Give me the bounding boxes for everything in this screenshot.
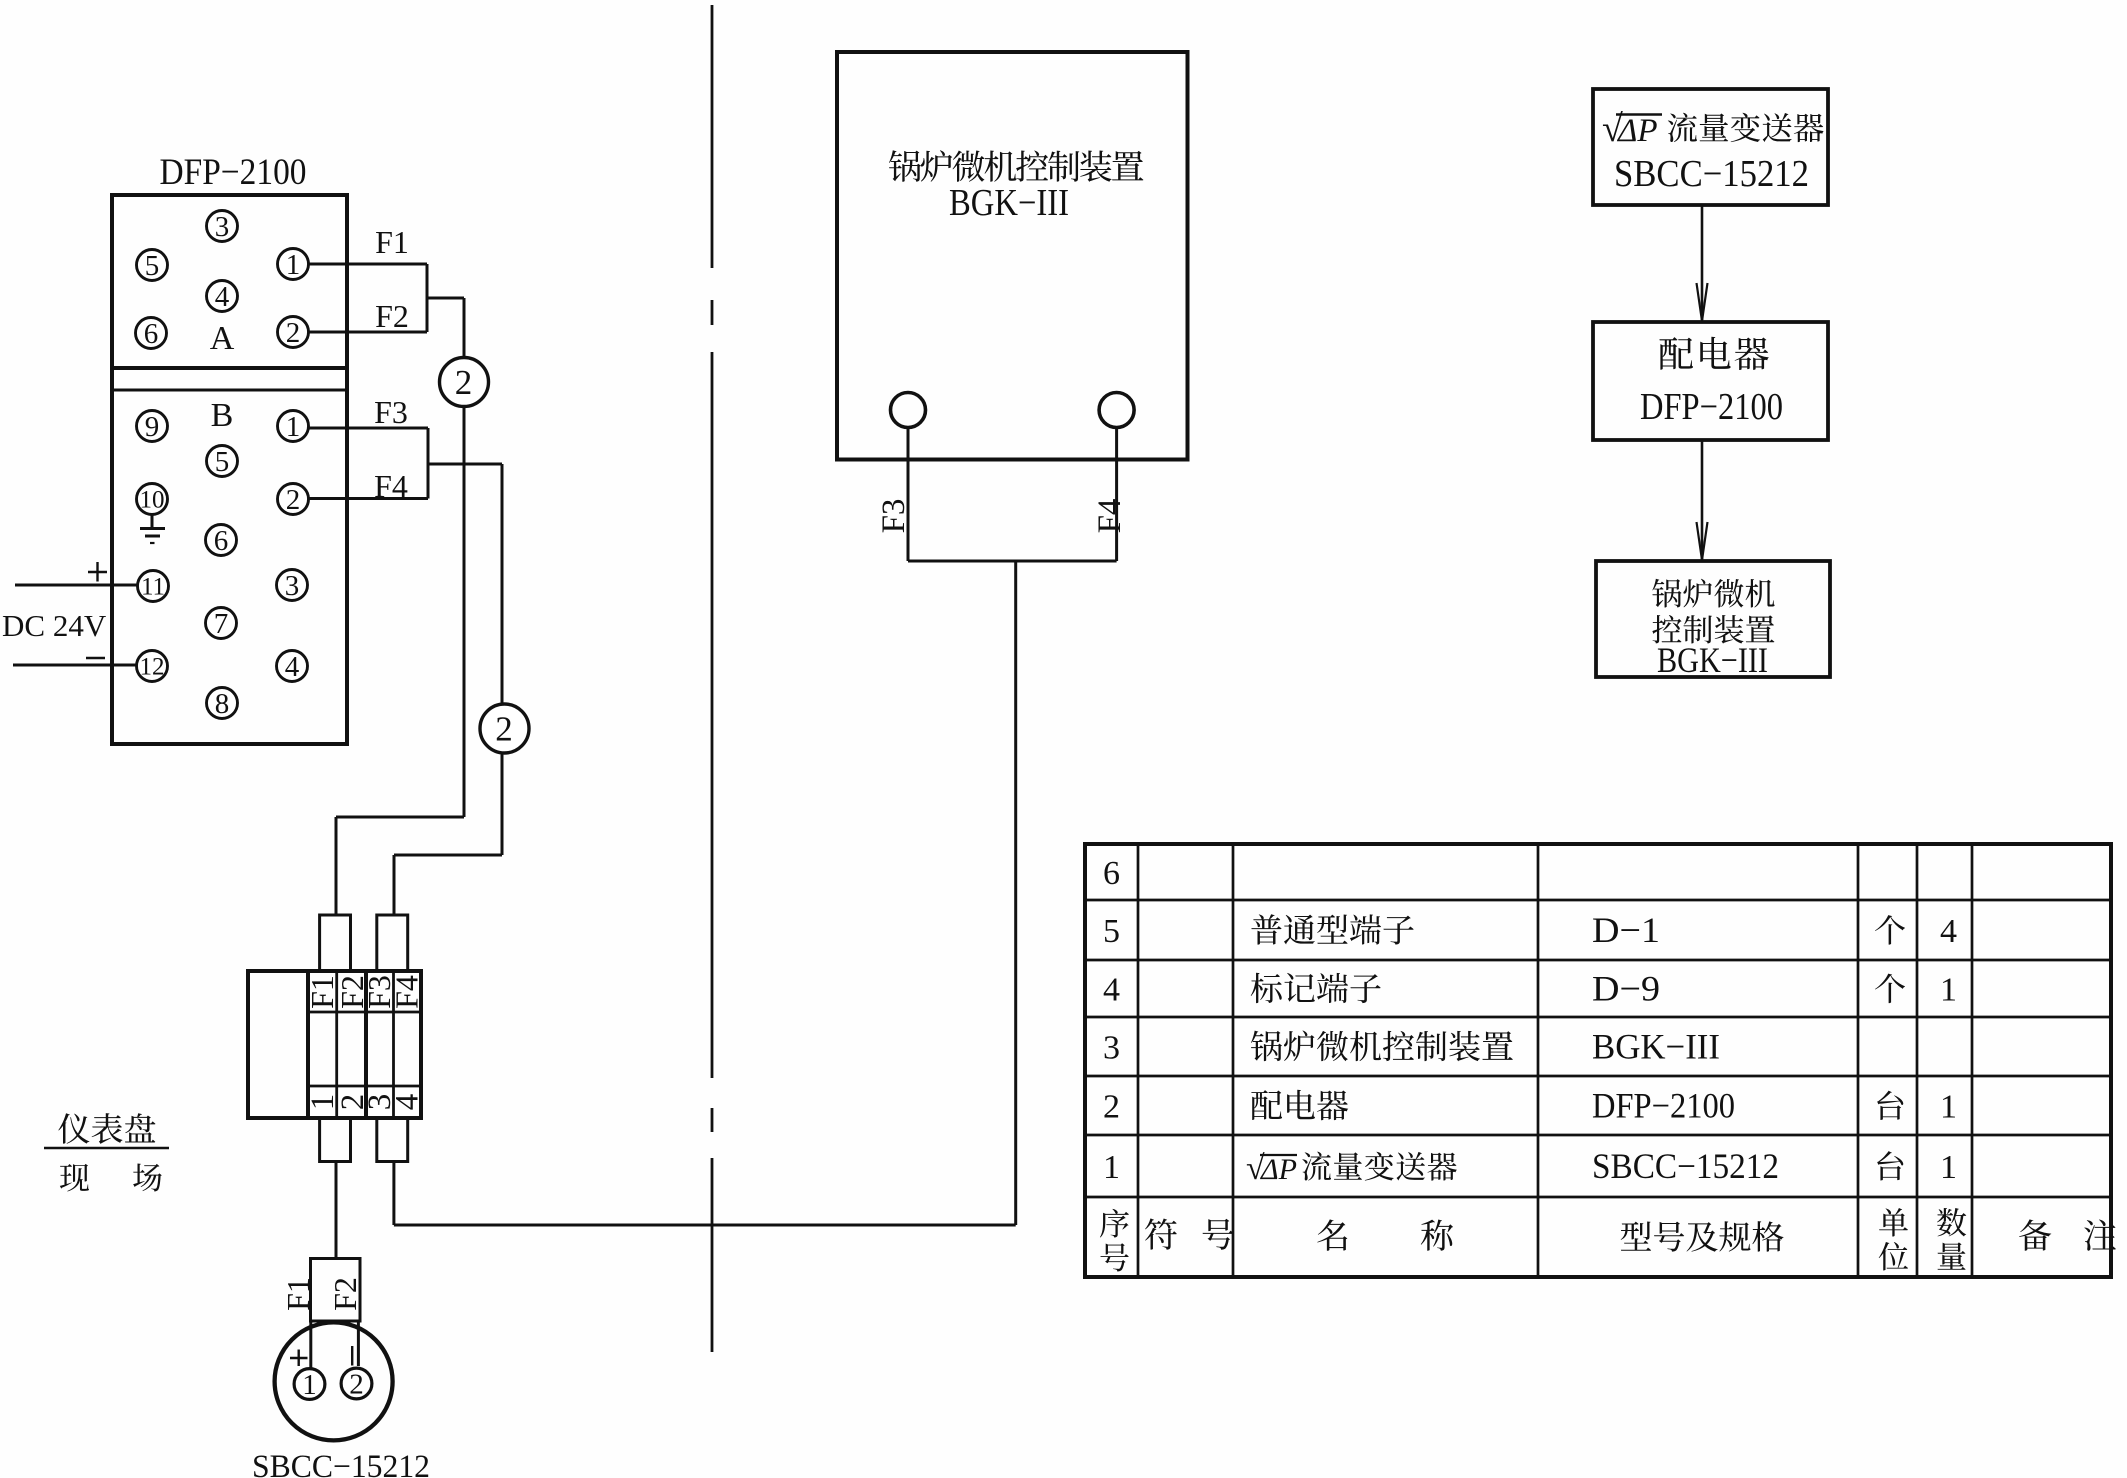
svg-text:9: 9 [145, 411, 160, 443]
terminal strip body [308, 971, 421, 1118]
terminal A3 [207, 211, 238, 243]
svg-text:1: 1 [286, 411, 301, 443]
strip label F3 [361, 975, 397, 1009]
wire F3-F4 pair vertical [427, 428, 430, 499]
strip label 3 [362, 1094, 398, 1111]
svg-text:DFP−2100: DFP−2100 [160, 152, 307, 193]
distributor DFP-2100 outline [112, 195, 347, 744]
transmitter junction box [311, 1259, 361, 1322]
terminal B8 [207, 688, 238, 720]
svg-text:11: 11 [141, 574, 165, 601]
wire pair down to panel 2 [501, 464, 504, 855]
label F4 rotated [1092, 499, 1128, 534]
wire F3 from B1 [309, 427, 429, 430]
svg-text:4: 4 [215, 281, 230, 313]
svg-text:2: 2 [286, 317, 301, 349]
BOM header name [1317, 1219, 1453, 1250]
strip label 4 [390, 1094, 426, 1111]
svg-text:DFP−2100: DFP−2100 [1640, 386, 1783, 428]
terminal A1 [278, 249, 309, 281]
svg-text:12: 12 [140, 654, 165, 681]
svg-text:B: B [211, 397, 234, 434]
svg-text:F2: F2 [375, 298, 409, 334]
svg-text:1: 1 [1940, 1089, 1957, 1126]
BOM header qty [1937, 1208, 1966, 1270]
BOM row 1 [1103, 1146, 1957, 1187]
svg-text:1: 1 [1940, 972, 1957, 1009]
wire pair down to panel [463, 298, 466, 817]
plus sign [88, 562, 107, 582]
BOM row 3 [1103, 1027, 1720, 1067]
terminal B12 [137, 651, 168, 682]
wire pair mid stub [427, 297, 464, 300]
BOM row 4 [1103, 969, 1957, 1009]
wire pair mid stub 2 [428, 463, 502, 466]
svg-text:4: 4 [1940, 913, 1957, 950]
BOM header symbol [1145, 1218, 1234, 1249]
terminal B5 [207, 446, 238, 478]
terminal B3 [277, 570, 308, 602]
wire DC+ to terminal 11 [15, 584, 138, 587]
svg-text:1: 1 [286, 249, 301, 281]
wire field run horizontal [394, 1224, 1016, 1227]
terminal A6 [136, 318, 167, 350]
flow box1 line1 sqrt [1602, 108, 1658, 150]
terminal strip divider v3 [392, 971, 395, 1118]
wire down to terminal strip F1F2 [335, 817, 338, 916]
cable marker 2 upper [440, 358, 489, 407]
terminal strip divider v1 [335, 971, 338, 1118]
boiler control unit title [889, 150, 1143, 182]
flow arrow 1 [1697, 205, 1708, 321]
svg-text:BGK−III: BGK−III [1657, 640, 1768, 680]
label F2 [375, 298, 409, 334]
BOM row 2 [1103, 1086, 1957, 1126]
fuse stub top-left [320, 915, 351, 971]
svg-text:F1: F1 [280, 1277, 316, 1311]
terminal B2 [278, 484, 309, 516]
fuse stub top-right [377, 915, 408, 971]
panel/field divider stroke [44, 1147, 169, 1150]
wire BGK F4 down [1115, 428, 1118, 562]
divider line section A/B lower [112, 389, 347, 392]
BGK terminal F4 [1099, 393, 1134, 428]
svg-text:5: 5 [1103, 913, 1120, 950]
fuse stub bottom-right [377, 1118, 408, 1162]
wire strip col4 down [392, 1162, 395, 1226]
flow box2 line1 [1659, 337, 1768, 370]
terminal strip top row line [308, 1011, 421, 1014]
transmitter label F2 [327, 1277, 363, 1311]
strip label F1 [304, 975, 340, 1009]
label DC 24V [2, 608, 107, 643]
transmitter terminal 2 [341, 1368, 372, 1400]
svg-text:5: 5 [215, 446, 230, 478]
terminal B9 [137, 411, 168, 443]
wire DC- to terminal 12 [13, 664, 137, 667]
svg-text:2: 2 [1103, 1089, 1120, 1126]
svg-text:6: 6 [144, 318, 159, 350]
terminal A2 [278, 317, 309, 349]
svg-text:F2: F2 [327, 1277, 363, 1311]
wire F1-F2 pair vertical [426, 264, 429, 332]
wire F1 from A1 [309, 263, 428, 266]
transmitter plus [290, 1350, 308, 1367]
BOM header seq [1100, 1209, 1129, 1272]
flow box2 line2 [1640, 386, 1783, 428]
transmitter label F1 [280, 1277, 316, 1311]
svg-text:F3: F3 [876, 499, 912, 534]
svg-text:6: 6 [214, 525, 229, 557]
BOM table grid [1085, 844, 2111, 1277]
ground [140, 515, 165, 544]
svg-text:4: 4 [285, 651, 300, 683]
svg-text:F1: F1 [375, 224, 409, 260]
distributor DFP-2100 label [160, 152, 307, 193]
flow box1 line2 [1614, 153, 1809, 195]
svg-text:1: 1 [302, 1369, 317, 1401]
wire F2 from A2 [309, 331, 428, 334]
wire strip to transmitter box [335, 1162, 338, 1260]
svg-text:F4: F4 [389, 975, 425, 1009]
svg-text:BGK−III: BGK−III [949, 182, 1069, 224]
transmitter body SBCC-15212 [275, 1322, 393, 1440]
svg-text:D−9: D−9 [1592, 969, 1660, 1009]
svg-text:DFP−2100: DFP−2100 [1592, 1086, 1735, 1126]
wire BGK F3 down [907, 428, 910, 562]
terminal strip side box [248, 971, 308, 1118]
terminal strip divider v2 [364, 971, 368, 1118]
svg-text:D−1: D−1 [1592, 910, 1660, 950]
terminal strip bottom row line [308, 1085, 421, 1088]
label F3 [374, 394, 408, 430]
svg-text:10: 10 [140, 487, 165, 514]
BOM header unit [1879, 1208, 1908, 1270]
svg-text:4: 4 [390, 1094, 426, 1111]
svg-text:BGK−III: BGK−III [1592, 1027, 1720, 1067]
minus sign [86, 657, 105, 659]
svg-text:2: 2 [495, 710, 513, 749]
wire down to terminal strip F3F4 [393, 855, 396, 916]
cable marker 2 lower [480, 704, 529, 753]
flow box control unit [1596, 561, 1830, 677]
terminal B11 [138, 571, 169, 602]
fuse stub bottom-left [320, 1118, 351, 1162]
boundary chain line [711, 5, 714, 1352]
svg-text:DC 24V: DC 24V [2, 608, 107, 643]
svg-text:1: 1 [1103, 1149, 1120, 1186]
flow box distributor [1593, 322, 1828, 440]
terminal B10 [137, 484, 168, 515]
terminal B7 [206, 608, 237, 640]
wire F4 from B2 [309, 497, 429, 500]
wire box to transmitter - [357, 1321, 360, 1366]
label F3 rotated [876, 499, 912, 534]
boiler control unit model [949, 182, 1069, 224]
svg-text:F4: F4 [1092, 499, 1128, 534]
svg-text:1: 1 [1940, 1149, 1957, 1186]
label instrument panel [58, 1113, 155, 1144]
flow box1 line1 vinculum [1616, 113, 1662, 115]
flow box3 line1 [1652, 579, 1774, 608]
label field [60, 1164, 162, 1192]
svg-text:F3: F3 [374, 394, 408, 430]
svg-text:8: 8 [215, 688, 230, 720]
wire BGK bottom horizontal [908, 560, 1117, 563]
svg-text:SBCC−15212: SBCC−15212 [1592, 1146, 1779, 1186]
svg-text:2: 2 [286, 484, 301, 516]
svg-text:ΔP: ΔP [1616, 113, 1658, 149]
wire BGK down to field run [1014, 561, 1017, 1225]
flow arrow 2 [1697, 440, 1708, 560]
boiler control unit outline [837, 52, 1188, 460]
flow box3 line3 [1657, 640, 1768, 680]
terminal A4 [207, 281, 238, 313]
transmitter minus [351, 1346, 353, 1366]
section label B [211, 397, 234, 434]
svg-text:ΔP: ΔP [1260, 1153, 1297, 1186]
svg-text:3: 3 [285, 570, 300, 602]
section label A [210, 320, 235, 357]
svg-text:SBCC−15212: SBCC−15212 [1614, 153, 1809, 195]
terminal B1 [278, 411, 309, 443]
BOM row 5 [1103, 910, 1957, 950]
svg-text:6: 6 [1103, 855, 1120, 892]
terminal A5 [137, 250, 168, 282]
flow box transmitter [1593, 89, 1828, 205]
flow box3 line2 [1652, 615, 1774, 644]
BOM header remark [2019, 1219, 2116, 1250]
divider line section A/B upper [112, 366, 347, 370]
strip label F2 [334, 975, 370, 1009]
transmitter terminal 1 [294, 1369, 325, 1401]
strip label 1 [305, 1094, 341, 1111]
transmitter name [252, 1449, 430, 1478]
svg-text:2: 2 [455, 363, 473, 402]
svg-text:3: 3 [1103, 1030, 1120, 1067]
BOM header model [1621, 1221, 1784, 1252]
svg-text:2: 2 [349, 1368, 364, 1400]
wire box to transmitter + [309, 1321, 312, 1369]
wire jog left 2 [394, 854, 502, 857]
BOM row 6 [1103, 855, 1120, 892]
wire jog left [336, 816, 464, 819]
label F4 [374, 468, 408, 504]
svg-text:7: 7 [214, 608, 229, 640]
flow box1 line1 name [1668, 113, 1824, 142]
svg-text:4: 4 [1103, 972, 1120, 1009]
svg-text:5: 5 [145, 250, 160, 282]
svg-text:3: 3 [215, 211, 230, 243]
label F1 [375, 224, 409, 260]
svg-text:A: A [210, 320, 235, 357]
strip label 2 [335, 1094, 371, 1111]
BGK terminal F3 [891, 393, 926, 428]
strip label F4 [389, 975, 425, 1009]
terminal B4 [277, 651, 308, 683]
terminal B6 [206, 525, 237, 557]
svg-text:SBCC−15212: SBCC−15212 [252, 1449, 430, 1478]
